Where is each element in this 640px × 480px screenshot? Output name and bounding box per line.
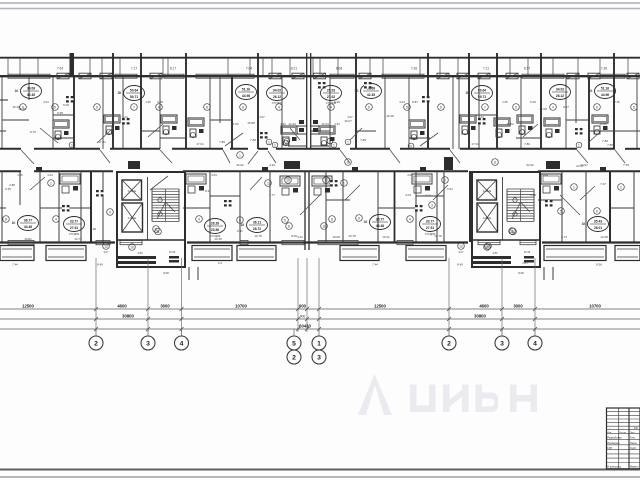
svg-text:1: 1 [50, 181, 52, 185]
svg-text:26.26: 26.26 [211, 222, 219, 226]
svg-text:8.56: 8.56 [596, 263, 602, 267]
bottom balconies [0, 246, 34, 261]
svg-text:7.85: 7.85 [607, 143, 613, 147]
svg-text:3000: 3000 [160, 304, 170, 309]
svg-text:34.92: 34.92 [236, 163, 244, 167]
svg-text:15.36: 15.36 [524, 250, 531, 254]
top exterior wall [0, 75, 640, 77]
svg-text:7.64: 7.64 [57, 67, 63, 71]
svg-text:10.78: 10.78 [348, 234, 356, 238]
svg-text:7.44: 7.44 [12, 263, 18, 267]
svg-text:8.21: 8.21 [291, 67, 297, 71]
svg-text:44.96: 44.96 [242, 94, 250, 98]
svg-text:8: 8 [5, 217, 7, 221]
svg-text:5: 5 [633, 105, 635, 109]
svg-text:34.92: 34.92 [526, 163, 534, 167]
svg-text:Разработал: Разработал [607, 435, 622, 439]
svg-text:12500: 12500 [22, 304, 34, 309]
svg-text:1: 1 [317, 341, 321, 348]
svg-text:27.91: 27.91 [70, 226, 78, 230]
svg-text:4.04: 4.04 [407, 173, 413, 177]
svg-text:7.17: 7.17 [131, 67, 137, 71]
svg-text:4600: 4600 [117, 304, 127, 309]
svg-text:1: 1 [620, 185, 622, 189]
svg-text:5: 5 [406, 105, 408, 109]
svg-text:33.77: 33.77 [70, 220, 78, 224]
svg-text:6.04: 6.04 [447, 187, 453, 191]
svg-text:8.49: 8.49 [457, 263, 463, 267]
svg-text:1.65: 1.65 [145, 100, 151, 104]
staircase core left [117, 172, 185, 267]
svg-text:10.08: 10.08 [332, 235, 340, 239]
svg-text:8.67: 8.67 [563, 105, 569, 109]
svg-text:26.12: 26.12 [556, 94, 564, 98]
svg-text:4.04: 4.04 [542, 173, 548, 177]
svg-text:8: 8 [206, 105, 208, 109]
svg-text:4: 4 [278, 105, 280, 109]
svg-text:8.08: 8.08 [163, 271, 169, 275]
svg-text:25.03: 25.03 [327, 89, 335, 93]
svg-text:1: 1 [333, 143, 335, 147]
svg-text:3000: 3000 [513, 304, 523, 309]
svg-text:4: 4 [198, 217, 200, 221]
svg-text:4: 4 [409, 217, 411, 221]
svg-text:3: 3 [431, 203, 433, 207]
svg-text:4.04: 4.04 [405, 193, 411, 197]
svg-text:50.64: 50.64 [478, 89, 486, 93]
svg-text:5: 5 [284, 218, 286, 222]
sanitary fixtures bottom band [60, 174, 80, 184]
svg-text:С-400ж: С-400ж [128, 190, 137, 193]
svg-text:3.86: 3.86 [137, 251, 143, 255]
svg-text:59.71: 59.71 [130, 95, 138, 99]
svg-text:17.01: 17.01 [196, 142, 204, 146]
svg-text:4.04: 4.04 [43, 100, 49, 104]
svg-text:27.02: 27.02 [327, 95, 335, 99]
svg-text:1: 1 [343, 181, 345, 185]
svg-text:12500: 12500 [374, 304, 386, 309]
svg-text:1: 1 [267, 181, 269, 185]
svg-text:42.45: 42.45 [27, 93, 35, 97]
svg-text:Гипт: Гипт [630, 435, 636, 439]
dimension lines [0, 308, 640, 310]
svg-text:8.75: 8.75 [30, 130, 36, 134]
svg-text:9.95: 9.95 [57, 111, 63, 115]
svg-text:6: 6 [596, 209, 598, 213]
bottom band partition walls [90, 171, 92, 242]
svg-text:60430: 60430 [299, 324, 311, 329]
svg-text:1: 1 [573, 185, 575, 189]
svg-text:11: 11 [156, 230, 160, 234]
svg-text:26.12: 26.12 [273, 95, 281, 99]
svg-text:8.87: 8.87 [412, 100, 418, 104]
sanitary fixtures top band [53, 120, 69, 128]
svg-text:13.75: 13.75 [74, 237, 82, 241]
corridor labels [345, 159, 352, 166]
svg-text:5.98: 5.98 [530, 193, 536, 197]
svg-text:10: 10 [130, 245, 134, 249]
svg-text:7.89: 7.89 [360, 138, 366, 142]
svg-text:13.78: 13.78 [434, 234, 442, 238]
bottom exterior wall [0, 241, 115, 243]
svg-text:15.88: 15.88 [599, 122, 607, 126]
grid axis circles [95, 329, 97, 337]
svg-text:6: 6 [596, 105, 598, 109]
svg-text:8.08: 8.08 [336, 67, 342, 71]
svg-text:7.29: 7.29 [623, 163, 629, 167]
svg-text:1: 1 [347, 140, 349, 144]
svg-text:10: 10 [324, 178, 328, 182]
svg-text:2: 2 [447, 341, 451, 348]
svg-text:4.04: 4.04 [47, 173, 53, 177]
svg-text:17.01: 17.01 [471, 142, 479, 146]
svg-text:7: 7 [484, 105, 486, 109]
svg-text:9.09: 9.09 [334, 100, 340, 104]
bottom windows [8, 241, 34, 245]
top band partition walls [112, 53, 114, 149]
svg-text:3: 3 [317, 355, 321, 362]
corridor closets [284, 161, 300, 169]
svg-text:51.16: 51.16 [242, 88, 250, 92]
svg-text:7.36: 7.36 [614, 100, 620, 104]
svg-text:3: 3 [410, 144, 412, 148]
svg-text:27.91: 27.91 [426, 226, 434, 230]
room number circles bottom [3, 216, 10, 223]
svg-text:10.78: 10.78 [254, 234, 262, 238]
svg-text:С-400ж: С-400ж [483, 190, 492, 193]
svg-text:8: 8 [242, 105, 244, 109]
top band interior partitions [53, 114, 74, 116]
svg-text:8.74: 8.74 [561, 235, 567, 239]
svg-text:С-630ж: С-630ж [128, 217, 137, 220]
svg-text:36.11: 36.11 [253, 221, 261, 225]
svg-text:35.43: 35.43 [594, 220, 602, 224]
svg-text:6.35: 6.35 [5, 187, 11, 191]
svg-text:1: 1 [71, 143, 73, 147]
svg-text:Н.контроль: Н.контроль [607, 464, 622, 468]
svg-text:3.3: 3.3 [218, 261, 223, 265]
svg-text:43.46: 43.46 [24, 225, 32, 229]
svg-text:4.33: 4.33 [280, 122, 286, 126]
svg-text:34.02: 34.02 [273, 89, 281, 93]
svg-text:4.04: 4.04 [211, 173, 217, 177]
svg-text:15.88: 15.88 [247, 121, 255, 125]
svg-text:5: 5 [560, 209, 562, 213]
svg-text:16.07: 16.07 [344, 119, 352, 123]
svg-text:8: 8 [158, 105, 160, 109]
svg-text:42.45: 42.45 [367, 93, 375, 97]
svg-text:11.52: 11.52 [231, 122, 239, 126]
svg-text:8.28: 8.28 [90, 227, 96, 231]
svg-text:7.77: 7.77 [269, 193, 275, 197]
svg-text:4.33: 4.33 [269, 163, 275, 167]
svg-text:11: 11 [511, 230, 515, 234]
svg-text:13.36: 13.36 [214, 237, 222, 241]
svg-text:4: 4 [552, 105, 554, 109]
svg-text:5.24: 5.24 [297, 235, 303, 239]
svg-text:36.77: 36.77 [376, 218, 384, 222]
svg-text:4: 4 [180, 341, 184, 348]
svg-text:9: 9 [358, 216, 360, 220]
svg-text:Проверил: Проверил [607, 441, 620, 445]
svg-text:4: 4 [330, 105, 332, 109]
svg-text:6.04: 6.04 [122, 115, 128, 119]
svg-text:8.08: 8.08 [518, 271, 524, 275]
svg-text:6: 6 [239, 218, 241, 222]
svg-text:1.65: 1.65 [17, 173, 23, 177]
room number circles top [20, 104, 27, 111]
svg-text:7.04: 7.04 [246, 67, 252, 71]
svg-text:2: 2 [94, 341, 98, 348]
svg-text:36.77: 36.77 [24, 219, 32, 223]
svg-text:8: 8 [494, 160, 496, 164]
svg-text:4600: 4600 [479, 304, 489, 309]
svg-text:4: 4 [533, 341, 537, 348]
svg-text:16.48: 16.48 [12, 105, 20, 109]
svg-text:6: 6 [440, 105, 442, 109]
svg-text:14.08: 14.08 [600, 235, 608, 239]
svg-text:8.31: 8.31 [237, 229, 243, 233]
door swings top band [40, 128, 58, 143]
svg-text:1Б: 1Б [354, 89, 359, 93]
svg-text:23.56: 23.56 [211, 228, 219, 232]
apartment area ovals bottom [18, 216, 39, 231]
svg-text:1: 1 [578, 143, 580, 147]
svg-text:Фамил: Фамил [630, 464, 639, 468]
svg-text:3.87: 3.87 [522, 261, 528, 265]
svg-text:30800: 30800 [474, 314, 486, 319]
svg-text:30800: 30800 [122, 314, 134, 319]
dimension ticks [94, 307, 98, 311]
svg-text:9.09: 9.09 [157, 100, 163, 104]
svg-text:1: 1 [274, 143, 276, 147]
svg-text:6: 6 [96, 105, 98, 109]
svg-text:10: 10 [485, 245, 489, 249]
svg-text:7.11: 7.11 [483, 67, 489, 71]
svg-text:5: 5 [515, 105, 517, 109]
svg-text:44.96: 44.96 [601, 93, 609, 97]
svg-text:6.04: 6.04 [478, 115, 484, 119]
svg-text:10700: 10700 [589, 304, 601, 309]
svg-text:51.16: 51.16 [601, 87, 609, 91]
svg-text:7.36: 7.36 [601, 67, 607, 71]
svg-text:5.06: 5.06 [63, 103, 69, 107]
svg-text:15.36: 15.36 [169, 250, 176, 254]
svg-text:4: 4 [55, 217, 57, 221]
svg-text:4.33: 4.33 [334, 122, 340, 126]
svg-text:8: 8 [288, 224, 290, 228]
svg-text:11.52: 11.52 [506, 122, 514, 126]
svg-text:59.71: 59.71 [478, 95, 486, 99]
svg-text:43.46: 43.46 [376, 224, 384, 228]
svg-text:6.04: 6.04 [425, 194, 431, 198]
svg-text:10: 10 [286, 178, 290, 182]
svg-text:СТУДИЯ: СТУДИЯ [69, 232, 80, 236]
corridor walls [0, 148, 21, 150]
svg-text:10700: 10700 [235, 304, 247, 309]
svg-text:7.89: 7.89 [250, 138, 256, 142]
svg-text:8.17: 8.17 [524, 67, 530, 71]
top wall windows [8, 74, 50, 78]
svg-text:Горб: Горб [630, 446, 636, 450]
svg-text:10.91: 10.91 [382, 235, 390, 239]
svg-text:Кол.уч: Кол.уч [620, 432, 627, 434]
svg-text:2: 2 [444, 178, 446, 182]
svg-text:34.02: 34.02 [556, 88, 564, 92]
svg-text:3: 3 [146, 341, 150, 348]
svg-text:1: 1 [239, 153, 241, 157]
svg-text:16.48: 16.48 [386, 114, 394, 118]
bottom band interior partitions [40, 207, 90, 209]
svg-text:3.07: 3.07 [458, 250, 464, 254]
balcony door hatches [57, 73, 69, 79]
svg-text:3.86: 3.86 [492, 251, 498, 255]
svg-text:7: 7 [133, 105, 135, 109]
svg-text:33.77: 33.77 [426, 220, 434, 224]
bottom border line [0, 469, 640, 471]
svg-text:39.09: 39.09 [27, 87, 35, 91]
svg-text:7.07: 7.07 [600, 182, 606, 186]
svg-text:28.72: 28.72 [253, 227, 261, 231]
svg-text:900: 900 [299, 304, 307, 309]
svg-text:1: 1 [268, 140, 270, 144]
top border line [0, 2, 640, 4]
svg-text:3.07: 3.07 [103, 250, 109, 254]
svg-text:17.01: 17.01 [98, 140, 106, 144]
left edge wall stubs [0, 99, 8, 101]
svg-text:7.44: 7.44 [372, 263, 378, 267]
svg-text:Изм: Изм [607, 432, 612, 434]
door swings bottom band [150, 176, 168, 190]
top balcony parapet wall [0, 57, 640, 59]
svg-text:6: 6 [368, 105, 370, 109]
svg-text:4.04: 4.04 [399, 100, 405, 104]
svg-text:3.07: 3.07 [259, 115, 265, 119]
svg-text:7.36: 7.36 [411, 67, 417, 71]
svg-text:13.34: 13.34 [321, 122, 329, 126]
svg-text:Пала: Пала [630, 441, 637, 445]
svg-text:3: 3 [500, 341, 504, 348]
svg-text:8: 8 [323, 224, 325, 228]
svg-text:7.89: 7.89 [219, 140, 225, 144]
svg-text:Лист: Лист [630, 432, 635, 434]
svg-text:9: 9 [109, 210, 111, 214]
svg-text:5.06: 5.06 [530, 100, 536, 104]
svg-text:1.65: 1.65 [502, 100, 508, 104]
corridor door swings [21, 150, 34, 164]
apartment area ovals top [21, 84, 42, 99]
svg-text:8.31: 8.31 [205, 189, 211, 193]
svg-text:28.01: 28.01 [594, 226, 602, 230]
svg-text:5: 5 [54, 105, 56, 109]
watermark [358, 374, 537, 415]
svg-text:ГАП: ГАП [607, 446, 612, 450]
svg-text:5: 5 [292, 341, 296, 348]
svg-text:3.07: 3.07 [347, 115, 353, 119]
title block [607, 408, 640, 469]
dimension extension lines [95, 258, 97, 332]
svg-text:8.17: 8.17 [170, 67, 176, 71]
svg-text:13.34: 13.34 [288, 122, 296, 126]
svg-text:2: 2 [292, 355, 296, 362]
svg-text:8.49: 8.49 [97, 263, 103, 267]
svg-text:15.68: 15.68 [539, 107, 547, 111]
svg-text:50.64: 50.64 [130, 89, 138, 93]
svg-text:8: 8 [331, 217, 333, 221]
svg-text:С-630ж: С-630ж [483, 217, 492, 220]
svg-text:900: 900 [300, 315, 306, 319]
staircase core right [472, 172, 540, 267]
parapet ticks [7, 58, 9, 76]
svg-text:24.97: 24.97 [576, 164, 584, 168]
svg-text:7.89: 7.89 [524, 142, 530, 146]
svg-text:12: 12 [459, 244, 463, 248]
